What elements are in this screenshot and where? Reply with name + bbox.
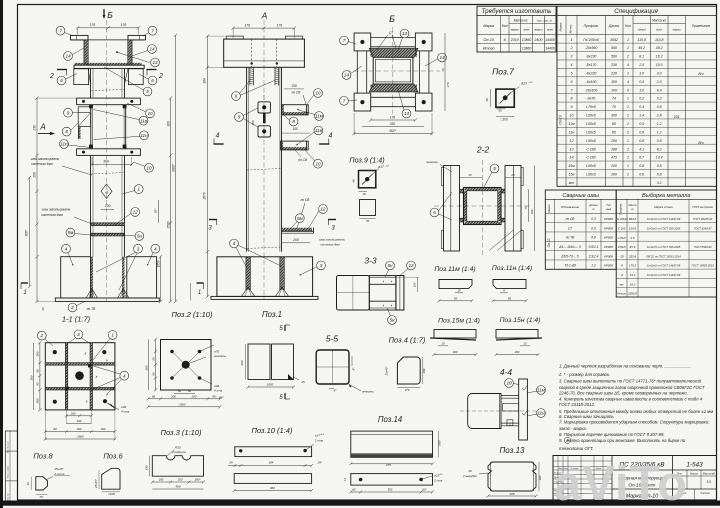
svg-text:3-3: 3-3 bbox=[364, 256, 377, 266]
svg-text:230: 230 bbox=[145, 465, 149, 471]
svg-text:2: 2 bbox=[626, 55, 629, 59]
callout 14 left bbox=[64, 52, 73, 61]
svg-text:R30: R30 bbox=[175, 446, 181, 450]
svg-text:110: 110 bbox=[413, 282, 417, 287]
2-2 right channel bbox=[505, 166, 521, 252]
callout 4 right bbox=[151, 244, 160, 253]
svg-text:швы закольцевать: швы закольцевать bbox=[42, 208, 71, 212]
leg right bbox=[127, 257, 157, 298]
svg-text:200: 200 bbox=[177, 478, 183, 482]
svg-text:6: 6 bbox=[571, 80, 573, 84]
top view B label bbox=[340, 14, 450, 135]
4-4 callout 10 bbox=[505, 379, 514, 388]
4-4 callout 11n bbox=[537, 409, 546, 418]
svg-text:Марка: Марка bbox=[559, 22, 563, 31]
svg-text:2: 2 bbox=[626, 147, 629, 151]
svg-text:0.8: 0.8 bbox=[657, 139, 662, 143]
svg-text:-8х230: -8х230 bbox=[586, 55, 597, 59]
bracket 6 right bbox=[128, 69, 143, 85]
2-2 right dims bbox=[528, 189, 530, 222]
3-3 right part bands bbox=[369, 276, 396, 311]
svg-text:2: 2 bbox=[158, 73, 163, 80]
svg-text:6: 6 bbox=[433, 210, 436, 215]
shaft walls bbox=[246, 67, 248, 251]
svg-text:зенкать: зенкать bbox=[425, 160, 438, 164]
svg-text:11н: 11н bbox=[537, 411, 545, 416]
svg-text:8: 8 bbox=[65, 129, 68, 134]
svg-text:2: 2 bbox=[626, 114, 629, 118]
svg-text:2246-70. Все сварные швы Δ5, к: 2246-70. Все сварные швы Δ5, кроме огово… bbox=[558, 390, 688, 395]
svg-text:4-4: 4-4 bbox=[500, 367, 513, 377]
svg-text:Масса кг: Масса кг bbox=[514, 19, 528, 23]
svg-text:70: 70 bbox=[39, 495, 43, 499]
svg-text:4 вырубки: 4 вырубки bbox=[463, 474, 478, 478]
svg-text:Требуется изготовить: Требуется изготовить bbox=[482, 8, 552, 15]
svg-text:1: 1 bbox=[627, 71, 629, 75]
svg-text:25х45°: 25х45° bbox=[94, 478, 98, 489]
svg-text:9: 9 bbox=[238, 115, 241, 120]
svg-text:7: 7 bbox=[59, 28, 62, 33]
base plate bbox=[55, 298, 159, 301]
svg-text:300: 300 bbox=[166, 121, 170, 127]
svg-text:160: 160 bbox=[538, 475, 542, 480]
dims below bbox=[371, 119, 416, 121]
svg-text:11п: 11п bbox=[60, 142, 68, 147]
detail Poz.9 bbox=[349, 156, 390, 224]
svg-text:13.4: 13.4 bbox=[656, 156, 663, 160]
3-3 end bar bbox=[396, 276, 404, 311]
svg-text:4. Контроль качества сварных ш: 4. Контроль качества сварных швов вести … bbox=[559, 397, 703, 402]
svg-text:Масса: Масса bbox=[629, 203, 637, 207]
svg-text:15: 15 bbox=[457, 289, 461, 293]
svg-text:176: 176 bbox=[244, 23, 250, 27]
4-4 gusset bar bbox=[519, 379, 528, 440]
svg-text:L50х5: L50х5 bbox=[586, 122, 596, 126]
svg-text:11н: 11н bbox=[569, 130, 575, 134]
svg-text:170: 170 bbox=[404, 388, 409, 392]
svg-text:129.6: 129.6 bbox=[629, 226, 637, 230]
svg-text:230: 230 bbox=[33, 125, 37, 132]
base plate bbox=[211, 296, 318, 299]
taper lines bbox=[88, 68, 90, 84]
svg-text:L50х5: L50х5 bbox=[586, 114, 596, 118]
svg-text:L50х5: L50х5 bbox=[586, 173, 596, 177]
svg-text:Поз.7: Поз.7 bbox=[492, 67, 514, 77]
svg-text:10: 10 bbox=[147, 111, 153, 116]
callout 11m bbox=[315, 112, 324, 121]
svg-text:100: 100 bbox=[611, 88, 617, 92]
svg-text:6: 6 bbox=[151, 78, 154, 83]
svg-text:288: 288 bbox=[610, 147, 617, 151]
svg-text:0.5: 0.5 bbox=[639, 80, 644, 84]
svg-text:Гн□200х6: Гн□200х6 bbox=[583, 38, 598, 42]
svg-text:13: 13 bbox=[402, 31, 408, 36]
svg-text:2400: 2400 bbox=[533, 38, 542, 42]
dim 304 bbox=[92, 163, 132, 165]
svg-text:□100: □100 bbox=[500, 118, 507, 122]
svg-text:230: 230 bbox=[422, 368, 426, 374]
svg-text:Выборка металла: Выборка металла bbox=[642, 193, 690, 199]
svg-text:2310: 2310 bbox=[510, 38, 519, 42]
detail Poz.10 bbox=[228, 426, 325, 492]
svg-text:ø70: ø70 bbox=[214, 350, 220, 354]
anchor studs bbox=[249, 67, 251, 85]
svg-text:Б: Б bbox=[389, 14, 395, 24]
svg-text:200: 200 bbox=[76, 419, 82, 423]
svg-text:352: 352 bbox=[390, 122, 396, 126]
svg-text:7. Маркировка производится уда: 7. Маркировка производится ударным спосо… bbox=[559, 420, 710, 425]
svg-text:1: 1 bbox=[137, 187, 140, 192]
svg-text:09Г2С по ГОСТ 19281-2014: 09Г2С по ГОСТ 19281-2014 bbox=[646, 254, 681, 258]
svg-text:0.6: 0.6 bbox=[639, 130, 644, 134]
svg-text:2: 2 bbox=[49, 73, 54, 80]
svg-text:200: 200 bbox=[610, 164, 617, 168]
svg-text:-8: -8 bbox=[620, 264, 623, 268]
svg-text:4: 4 bbox=[567, 439, 569, 443]
center big bolt bbox=[75, 371, 84, 380]
svg-text:11м: 11м bbox=[537, 388, 546, 393]
svg-text:ø17: ø17 bbox=[378, 165, 384, 169]
svg-text:200: 200 bbox=[514, 350, 520, 354]
svg-text:ГОСТ 30245-03: ГОСТ 30245-03 bbox=[693, 217, 713, 221]
svg-text:1.4: 1.4 bbox=[639, 114, 644, 118]
left dim chain bbox=[207, 36, 209, 296]
svg-text:5: 5 bbox=[571, 71, 573, 75]
svg-text:110.8: 110.8 bbox=[637, 38, 646, 42]
table: Спецификация bbox=[557, 6, 717, 186]
svg-text:марки: марки bbox=[673, 28, 682, 32]
svg-text:92: 92 bbox=[36, 382, 40, 386]
svg-text:90: 90 bbox=[36, 369, 40, 373]
svg-text:технологии ОГТ.: технологии ОГТ. bbox=[559, 446, 594, 451]
svg-text:80: 80 bbox=[151, 357, 155, 361]
detail Poz.14 bbox=[343, 415, 443, 494]
svg-text:475: 475 bbox=[611, 156, 617, 160]
svg-text:13: 13 bbox=[152, 60, 158, 65]
svg-text:заказ - марка.: заказ - марка. bbox=[558, 426, 587, 431]
svg-text:8.1: 8.1 bbox=[639, 55, 644, 59]
svg-text:360: 360 bbox=[611, 114, 617, 118]
svg-text:2: 2 bbox=[508, 422, 511, 426]
svg-text:13860: 13860 bbox=[522, 38, 532, 42]
watermark avito bbox=[554, 457, 688, 508]
callout 10 ur bbox=[314, 89, 323, 98]
svg-text:85: 85 bbox=[612, 122, 616, 126]
svg-text:всех: всех bbox=[547, 28, 553, 32]
svg-text:4.1: 4.1 bbox=[639, 147, 644, 151]
detail Poz.15n bbox=[495, 317, 543, 356]
svg-text:4 отв: 4 отв bbox=[214, 389, 223, 393]
section marks 4-4 bbox=[214, 143, 224, 145]
svg-text:452*: 452* bbox=[389, 129, 397, 133]
callout 10 lr bbox=[314, 159, 323, 168]
svg-text:3300*: 3300* bbox=[171, 163, 175, 172]
svg-text:2 отв: 2 отв bbox=[433, 478, 443, 482]
svg-text:4: 4 bbox=[154, 246, 157, 251]
right dim chains bbox=[160, 257, 162, 302]
svg-text:6: 6 bbox=[235, 94, 238, 99]
svg-text:1: 1 bbox=[571, 38, 573, 42]
svg-text:180°: 180° bbox=[195, 478, 202, 482]
top box walls bbox=[83, 40, 85, 65]
svg-text:80: 80 bbox=[188, 389, 192, 393]
dim 200 bottom bbox=[282, 242, 311, 244]
svg-text:Кол: Кол bbox=[625, 24, 631, 28]
detail Poz.6 bbox=[94, 452, 123, 496]
svg-text:Δ5/5-Т3-∟5: Δ5/5-Т3-∟5 bbox=[560, 254, 579, 258]
callout 11v2 bbox=[314, 126, 323, 135]
svg-text:aViTo: aViTo bbox=[554, 457, 688, 508]
svg-text:12: 12 bbox=[408, 263, 414, 268]
svg-text:200: 200 bbox=[36, 351, 40, 357]
svg-text:5н: 5н bbox=[387, 263, 393, 268]
svg-text:5н: 5н bbox=[389, 318, 395, 323]
svg-text:175.2: 175.2 bbox=[629, 264, 637, 268]
svg-text:10: 10 bbox=[570, 114, 574, 118]
svg-text:34: 34 bbox=[441, 68, 445, 72]
svg-text:14: 14 bbox=[149, 47, 155, 52]
svg-text:1.2: 1.2 bbox=[657, 122, 662, 126]
svg-text:4: 4 bbox=[627, 80, 629, 84]
2-2 callout 6 bbox=[430, 208, 439, 217]
svg-text:Марка: Марка bbox=[547, 204, 551, 213]
svg-text:50: 50 bbox=[498, 109, 502, 113]
section 4-4 bbox=[460, 367, 546, 440]
callout 10 mid bbox=[145, 163, 154, 172]
callout 5m2 bbox=[295, 214, 304, 223]
callout 7 tl bbox=[340, 36, 349, 45]
detail Poz.15m bbox=[430, 318, 480, 357]
svg-text:200: 200 bbox=[29, 375, 33, 381]
left column elevation bbox=[21, 20, 204, 324]
svg-text:200: 200 bbox=[104, 204, 111, 208]
svg-text:60: 60 bbox=[352, 487, 356, 491]
svg-text:А: А bbox=[104, 189, 108, 194]
svg-text:4: 4 bbox=[216, 133, 220, 140]
bracket 10 upper bbox=[282, 105, 309, 115]
svg-text:200: 200 bbox=[452, 350, 458, 354]
svg-text:С 160: С 160 bbox=[618, 226, 626, 230]
svg-text:Профиль: Профиль bbox=[584, 24, 599, 28]
svg-text:зенкать: зенкать bbox=[213, 354, 226, 358]
svg-text:304: 304 bbox=[269, 461, 274, 465]
bottom black bar bbox=[0, 501, 720, 506]
svg-text:4: 4 bbox=[571, 63, 573, 67]
section 5-5 bbox=[316, 334, 374, 394]
svg-text:Подп. и дата: Подп. и дата bbox=[6, 465, 9, 478]
svg-text:С7: С7 bbox=[389, 31, 393, 35]
svg-text:49.2: 49.2 bbox=[656, 46, 663, 50]
svg-text:8.2: 8.2 bbox=[657, 147, 662, 151]
callout 7 right bbox=[148, 26, 157, 35]
detail Poz.8 bbox=[26, 452, 70, 500]
notes list bbox=[558, 364, 713, 451]
svg-text:4: 4 bbox=[627, 63, 629, 67]
svg-text:сваркой в среде защитных газов: сваркой в среде защитных газов сварочной… bbox=[559, 385, 705, 390]
hatch ticks along grid bbox=[66, 343, 68, 409]
callout 12 bbox=[131, 208, 140, 217]
section 2-2 bbox=[425, 145, 534, 258]
svg-text:всех: всех bbox=[524, 28, 530, 32]
svg-text:12: 12 bbox=[570, 139, 574, 143]
dim chain between columns bbox=[190, 283, 192, 301]
svg-text:марки: марки bbox=[534, 28, 543, 32]
svg-text:8. Покрытие горячее цинкование: 8. Покрытие горячее цинкование по ГОСТ 9… bbox=[559, 432, 665, 437]
svg-text:4: 4 bbox=[329, 133, 333, 140]
svg-text:155: 155 bbox=[292, 127, 298, 131]
callout 14 right bbox=[148, 45, 157, 54]
svg-text:Марка: Марка bbox=[483, 24, 494, 28]
svg-text:L70х5: L70х5 bbox=[586, 105, 596, 109]
svg-text:швы закольцевать: швы закольцевать bbox=[319, 238, 346, 242]
detail Poz.7 bbox=[485, 67, 534, 122]
svg-text:Δ4-∟/Δ4т-∟5: Δ4-∟/Δ4т-∟5 bbox=[558, 245, 581, 249]
svg-text:13.2: 13.2 bbox=[630, 273, 636, 277]
center dashes bbox=[346, 70, 440, 72]
svg-text:664.8: 664.8 bbox=[629, 217, 637, 221]
callout 10 upper right bbox=[146, 109, 155, 118]
detail Poz.2 bbox=[144, 310, 226, 408]
inner box bbox=[373, 57, 413, 84]
svg-text:20: 20 bbox=[467, 469, 472, 473]
left dim chain bbox=[36, 98, 38, 301]
section marks 1-1 bbox=[21, 282, 28, 284]
table: Выборка металла bbox=[616, 190, 717, 297]
svg-text:зенкать: зенкать bbox=[361, 390, 374, 394]
svg-text:1.2: 1.2 bbox=[591, 264, 596, 268]
callout 13 top bbox=[400, 29, 409, 38]
svg-text:200: 200 bbox=[240, 360, 244, 366]
svg-text:Листов: Листов bbox=[699, 491, 710, 495]
svg-text:3. Сварные швы выполнить по ГО: 3. Сварные швы выполнить по ГОСТ 14771-7… bbox=[559, 379, 702, 384]
svg-text:КР008: КР008 bbox=[604, 226, 613, 230]
svg-text:15: 15 bbox=[523, 342, 527, 346]
callouts bbox=[37, 331, 46, 340]
svg-text:-8х220: -8х220 bbox=[586, 71, 597, 75]
mid flange 1 bbox=[77, 98, 141, 105]
svg-text:Инв. №: Инв. № bbox=[6, 493, 9, 501]
2-2 top dims bbox=[460, 177, 483, 179]
mid box segment bbox=[90, 105, 92, 149]
2-2 callout 5 bbox=[490, 164, 499, 173]
svg-text:10.0: 10.0 bbox=[656, 63, 663, 67]
svg-text:катетом 4мм: катетом 4мм bbox=[320, 243, 339, 247]
top view B frame corner squares bbox=[354, 33, 371, 51]
svg-text:14: 14 bbox=[439, 55, 445, 60]
svg-text:Масса: Масса bbox=[690, 472, 698, 476]
svg-text:200: 200 bbox=[610, 139, 617, 143]
node A diamond bbox=[101, 184, 112, 198]
svg-text:Поз.2 (1:10): Поз.2 (1:10) bbox=[172, 310, 213, 319]
detail Poz.4 bbox=[385, 336, 426, 392]
callout 14 right bbox=[438, 53, 447, 62]
2-2 top plate bbox=[460, 188, 506, 190]
svg-text:L50х5: L50х5 bbox=[586, 139, 596, 143]
svg-text:0.6/1.1: 0.6/1.1 bbox=[589, 245, 599, 249]
svg-text:16: 16 bbox=[362, 192, 366, 196]
svg-text:9: 9 bbox=[571, 105, 573, 109]
svg-text:0.8: 0.8 bbox=[657, 105, 662, 109]
svg-text:катетом 4мм: катетом 4мм bbox=[41, 213, 63, 217]
4-4 main box bbox=[468, 394, 501, 429]
svg-text:L70х5: L70х5 bbox=[618, 236, 626, 240]
svg-text:№ поз: № поз bbox=[569, 24, 573, 33]
shaft joint welds bbox=[91, 222, 125, 224]
svg-text:200: 200 bbox=[36, 398, 40, 404]
cap tabs bbox=[226, 36, 243, 39]
svg-text:3092: 3092 bbox=[610, 38, 618, 42]
svg-text:Инв. № подл.: Инв. № подл. bbox=[6, 440, 9, 453]
corner bolts bbox=[53, 350, 57, 354]
svg-text:по СВ: по СВ bbox=[301, 198, 311, 202]
svg-text:В/ч: В/ч bbox=[698, 72, 703, 76]
svg-text:-20х560: -20х560 bbox=[585, 46, 598, 50]
svg-text:80: 80 bbox=[152, 394, 156, 398]
svg-text:15м: 15м bbox=[568, 164, 575, 168]
svg-text:2. * - размер для справок.: 2. * - размер для справок. bbox=[558, 372, 610, 377]
svg-text:40: 40 bbox=[485, 98, 489, 102]
svg-text:8: 8 bbox=[571, 97, 573, 101]
bottom flange band bbox=[369, 84, 417, 92]
svg-text:6.4: 6.4 bbox=[657, 88, 662, 92]
middle column elevation bbox=[263, 20, 265, 300]
callout 11p bbox=[60, 140, 69, 149]
svg-text:2: 2 bbox=[70, 305, 74, 310]
box bottom flange (hatched) bbox=[75, 63, 142, 65]
svg-text:1.2: 1.2 bbox=[657, 130, 662, 134]
svg-text:2: 2 bbox=[626, 156, 629, 160]
callout 5n bbox=[135, 232, 144, 241]
svg-text:200: 200 bbox=[33, 172, 37, 179]
callout 6 right bbox=[148, 76, 157, 85]
svg-text:155: 155 bbox=[291, 84, 297, 88]
bottom dims bbox=[67, 415, 92, 417]
callout 11v bbox=[139, 116, 148, 125]
svg-text:12: 12 bbox=[320, 207, 326, 212]
svg-text:Профиль: Профиль bbox=[619, 203, 623, 215]
svg-text:176: 176 bbox=[276, 23, 282, 27]
svg-text:2.0: 2.0 bbox=[656, 80, 662, 84]
svg-text:1: 1 bbox=[198, 290, 201, 296]
callout 11n bbox=[140, 131, 149, 140]
svg-text:мт: мт bbox=[620, 282, 625, 286]
svg-text:1-1 (1:7): 1-1 (1:7) bbox=[62, 315, 91, 324]
callout 3 base bbox=[317, 261, 326, 270]
svg-text:по ТВ: по ТВ bbox=[566, 236, 575, 240]
shaft upper bbox=[90, 69, 92, 98]
svg-text:25: 25 bbox=[510, 173, 515, 177]
svg-text:180: 180 bbox=[159, 478, 164, 482]
svg-text:14: 14 bbox=[65, 54, 71, 59]
detail Poz.1 bbox=[240, 325, 305, 401]
svg-text:200: 200 bbox=[170, 394, 176, 398]
svg-text:0.2: 0.2 bbox=[639, 97, 644, 101]
svg-text:70: 70 bbox=[366, 219, 370, 223]
weld tabs bbox=[89, 105, 92, 108]
svg-text:2.9/2.4: 2.9/2.4 bbox=[588, 254, 599, 258]
svg-text:КР008: КР008 bbox=[604, 254, 613, 258]
weld tab squares bbox=[88, 364, 91, 367]
svg-text:15: 15 bbox=[468, 173, 472, 177]
svg-text:80: 80 bbox=[53, 427, 57, 431]
svg-text:12: 12 bbox=[133, 210, 139, 215]
callout 12b bbox=[319, 205, 328, 214]
svg-text:560: 560 bbox=[611, 46, 617, 50]
svg-text:6: 6 bbox=[60, 78, 63, 83]
callout 3 bbox=[134, 244, 143, 253]
svg-text:176: 176 bbox=[90, 23, 96, 27]
callout 13 bottom bbox=[402, 109, 411, 118]
